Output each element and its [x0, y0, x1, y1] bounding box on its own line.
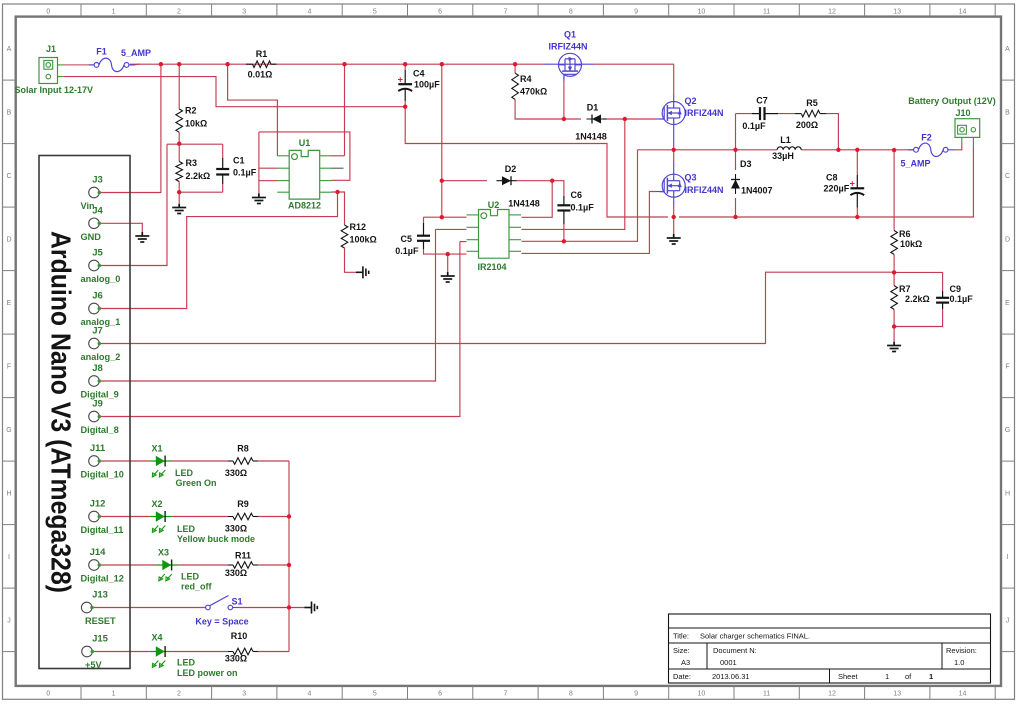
svg-text:Digital_8: Digital_8 — [81, 425, 119, 435]
connector J10 — [955, 119, 980, 138]
junction — [892, 324, 896, 328]
svg-text:6: 6 — [438, 691, 442, 698]
wire LED X4 to R10 — [172, 651, 228, 653]
led X3 — [156, 560, 178, 582]
svg-text:J5: J5 — [92, 248, 103, 259]
wire C1 top lead — [222, 144, 224, 158]
svg-text:R1: R1 — [256, 49, 268, 59]
svg-text:J6: J6 — [92, 291, 103, 302]
junction — [892, 148, 896, 152]
svg-text:5_AMP: 5_AMP — [900, 159, 930, 169]
svg-text:C: C — [6, 173, 11, 180]
diode D3 — [731, 174, 740, 194]
wire Q1 gate stub — [563, 77, 565, 82]
svg-text:J3: J3 — [92, 175, 103, 186]
wire F1 blue stub — [129, 64, 135, 66]
svg-text:U2: U2 — [488, 200, 500, 210]
wire S1 blue stub — [233, 607, 238, 609]
wire J7 analog_2 to divider — [99, 272, 894, 343]
wire top rail left of Q1 — [130, 63, 544, 65]
svg-text:470kΩ: 470kΩ — [520, 87, 547, 97]
svg-text:0.1µF: 0.1µF — [233, 168, 257, 178]
wire U2 VS to output rail — [522, 150, 638, 242]
connector J12 pin — [89, 511, 101, 522]
connector J11 pin — [89, 456, 101, 467]
wire R2 bottom — [178, 132, 180, 144]
wire U1 left vertical — [258, 132, 260, 194]
svg-text:C7: C7 — [756, 96, 768, 106]
svg-text:AD8212: AD8212 — [288, 201, 321, 211]
wire J15 to LED X4 — [93, 651, 150, 653]
wire J10 pin1 stub — [961, 138, 963, 144]
connector J8 pin — [89, 376, 101, 387]
wire U1 output to J6 analog_1 — [99, 192, 337, 309]
svg-text:Solar charger schematics FINAL: Solar charger schematics FINAL. — [700, 632, 810, 641]
junction — [177, 62, 181, 66]
connector J7 pin — [89, 338, 101, 349]
svg-text:Digital_11: Digital_11 — [81, 525, 124, 535]
wire R10 to chain — [258, 651, 289, 653]
junction — [287, 563, 291, 567]
junction — [892, 270, 896, 274]
svg-text:10: 10 — [698, 9, 706, 16]
wire Q2 drain stub — [673, 95, 675, 102]
junction — [855, 215, 859, 219]
wire R5 right leg — [826, 114, 838, 150]
svg-text:IRFIZ44N: IRFIZ44N — [549, 42, 588, 52]
lead C1 bottom — [222, 175, 224, 185]
svg-text:R7: R7 — [899, 284, 911, 294]
junction — [440, 179, 444, 183]
svg-text:R5: R5 — [806, 98, 818, 108]
wire C6 bottom lead — [563, 224, 565, 241]
svg-text:10: 10 — [698, 691, 706, 698]
wire LED chain vertical — [288, 461, 290, 652]
svg-text:J: J — [1006, 617, 1010, 624]
wire to ground below R3 — [178, 192, 180, 203]
capacitor C6 — [557, 205, 570, 210]
lead C7 right — [765, 113, 779, 115]
wire J8 Digital_9 to U2 IN — [99, 229, 435, 381]
svg-text:9: 9 — [634, 9, 638, 16]
connector J6 pin — [89, 303, 101, 314]
wire Q2 source to rail — [673, 146, 675, 162]
svg-text:Key = Space: Key = Space — [195, 617, 248, 627]
svg-text:J10: J10 — [955, 108, 970, 118]
svg-text:Title:: Title: — [673, 632, 689, 641]
svg-text:A3: A3 — [681, 658, 690, 667]
wire R1 left sense to U1 pin1 — [228, 64, 278, 156]
wire Q3 drain stub — [673, 162, 675, 174]
wire R1 right sense to U1 pin1R — [344, 64, 346, 156]
svg-text:J14: J14 — [90, 547, 107, 558]
wire U1 pin2L entry — [259, 167, 278, 169]
junction — [733, 215, 737, 219]
wire C7 to R5 — [778, 113, 795, 115]
wire C5 bottom to U2 pin4L — [424, 249, 467, 254]
led X2 — [150, 511, 172, 533]
wire output rail left of L1 — [638, 149, 778, 151]
svg-text:Revision:: Revision: — [946, 646, 977, 655]
svg-text:5_AMP: 5_AMP — [121, 48, 151, 58]
svg-text:D2: D2 — [505, 164, 517, 174]
ground R12 — [356, 266, 369, 278]
wire top rail to R2 — [178, 64, 180, 109]
resistor R11 — [233, 562, 253, 569]
svg-text:D3: D3 — [740, 159, 752, 169]
wire VCC to D2 anode — [442, 180, 487, 182]
svg-text:Digital_12: Digital_12 — [81, 574, 124, 584]
resistor R10 — [233, 648, 253, 655]
svg-text:Q1: Q1 — [564, 30, 576, 40]
svg-text:Arduino Nano V3 (ATmega328): Arduino Nano V3 (ATmega328) — [46, 231, 77, 593]
wire U2 pin1L row — [424, 216, 467, 218]
transistor Q3 — [660, 174, 686, 197]
wire R7 to ground — [893, 327, 895, 342]
lead C5 top — [423, 223, 425, 236]
svg-text:A: A — [7, 46, 12, 53]
svg-text:2: 2 — [177, 691, 181, 698]
svg-text:1: 1 — [112, 9, 116, 16]
transistor Q1 — [559, 53, 582, 79]
svg-text:R8: R8 — [237, 444, 249, 454]
svg-text:J4: J4 — [92, 205, 103, 216]
connector J13 pin — [81, 602, 93, 613]
svg-text:C1: C1 — [233, 156, 245, 166]
wire C5 top lead — [423, 217, 425, 223]
svg-text:11: 11 — [763, 691, 770, 698]
wire R12 to ground — [345, 248, 357, 272]
svg-text:R11: R11 — [235, 551, 251, 561]
svg-text:X2: X2 — [151, 499, 162, 509]
svg-text:5: 5 — [373, 9, 377, 16]
wire J3 Vin to top rail — [99, 64, 160, 192]
wire R3 top lead — [178, 144, 180, 161]
svg-text:R6: R6 — [899, 229, 911, 239]
wire U2 HO to D1 row — [522, 119, 625, 229]
wire S1 to ground — [238, 607, 306, 609]
svg-text:+5V: +5V — [85, 660, 102, 670]
wire R3 C1 bottom — [179, 191, 223, 193]
resistor R12 — [341, 225, 348, 248]
wire rail to C8 — [856, 150, 858, 175]
resistor R5 — [801, 110, 820, 117]
connector J9 pin — [89, 411, 101, 422]
ground below C5 — [441, 272, 455, 282]
svg-text:red_off: red_off — [181, 582, 213, 592]
wire U2 LO to Q3 gate — [522, 192, 657, 254]
wire resistor to chain — [258, 564, 289, 566]
wire D1 to Q2 gate — [603, 118, 656, 120]
wire D3 to bottom rail — [735, 198, 737, 217]
wire LED to resistor — [172, 516, 228, 518]
svg-text:1N4007: 1N4007 — [741, 186, 773, 196]
wire to C7 — [736, 113, 753, 115]
wire Q3 gate stub — [656, 191, 664, 193]
svg-text:0001: 0001 — [720, 658, 737, 667]
svg-text:0.1µF: 0.1µF — [395, 246, 419, 256]
svg-text:C5: C5 — [400, 234, 412, 244]
svg-text:R10: R10 — [231, 631, 248, 641]
junction — [287, 605, 291, 609]
lead C9 top — [942, 291, 944, 298]
junction — [513, 62, 517, 66]
lead C5 bottom — [423, 241, 425, 249]
connector J15 pin — [82, 646, 94, 657]
svg-text:of: of — [905, 672, 912, 681]
wire J9 Digital_8 to U2 — [99, 242, 460, 417]
capacitor C7 — [760, 107, 765, 120]
connector J1 — [39, 58, 65, 84]
resistor R2 — [176, 109, 183, 132]
svg-text:LED: LED — [177, 658, 196, 668]
junction — [855, 148, 859, 152]
wire C1 bottom lead — [222, 184, 224, 192]
wire bootstrap to U2 pin1R — [522, 181, 553, 218]
svg-text:H: H — [6, 490, 11, 497]
svg-text:5: 5 — [373, 691, 377, 698]
wire top rail to R4 — [514, 64, 516, 73]
title block — [669, 614, 991, 683]
wire R3 C1 top — [167, 143, 223, 145]
junction — [440, 215, 444, 219]
svg-text:E: E — [1005, 300, 1010, 307]
wire U2 pin2L entry — [436, 228, 467, 230]
svg-text:LED power on: LED power on — [177, 668, 238, 678]
svg-text:C6: C6 — [571, 190, 583, 200]
svg-text:IRFIZ44N: IRFIZ44N — [685, 185, 724, 195]
capacitor C4 — [398, 70, 412, 101]
wire F2 left stub — [909, 149, 914, 151]
wire C7 left leg — [735, 114, 737, 150]
svg-text:J11: J11 — [90, 443, 106, 454]
svg-text:G: G — [6, 427, 11, 434]
switch S1 — [206, 596, 233, 610]
wire Q1 drain-source through — [544, 63, 594, 65]
svg-text:U1: U1 — [299, 138, 311, 148]
wire R6 bottom — [893, 254, 895, 272]
svg-text:1: 1 — [929, 672, 933, 681]
junction — [177, 190, 181, 194]
junction — [672, 148, 676, 152]
svg-text:R2: R2 — [185, 106, 197, 116]
svg-text:3: 3 — [242, 9, 246, 16]
resistor R3 — [176, 162, 183, 182]
svg-text:12: 12 — [828, 9, 836, 16]
svg-text:Document N:: Document N: — [713, 646, 757, 655]
ground below Q3 — [667, 234, 681, 244]
svg-text:8: 8 — [569, 9, 573, 16]
svg-text:S1: S1 — [232, 597, 243, 607]
svg-text:Yellow buck mode: Yellow buck mode — [177, 534, 255, 544]
resistor R7 — [891, 286, 898, 310]
inductor L1 — [777, 147, 801, 150]
lead C1 top — [222, 158, 224, 169]
svg-text:analog_2: analog_2 — [81, 352, 121, 362]
svg-text:L1: L1 — [780, 135, 791, 145]
junction — [672, 215, 676, 219]
svg-text:13: 13 — [893, 691, 901, 698]
wire J10 pin2 stub — [972, 138, 974, 149]
svg-text:330Ω: 330Ω — [225, 568, 247, 578]
svg-text:10kΩ: 10kΩ — [900, 239, 922, 249]
svg-text:Q3: Q3 — [685, 173, 697, 183]
led X4 — [150, 646, 172, 668]
lead R5 right — [820, 113, 826, 115]
svg-text:10kΩ: 10kΩ — [185, 119, 207, 129]
wire output rail to F2 — [801, 149, 916, 151]
svg-text:33µH: 33µH — [772, 151, 794, 161]
wire from digital pin to LED — [99, 516, 149, 518]
svg-text:C: C — [1005, 173, 1010, 180]
svg-text:H: H — [1005, 490, 1010, 497]
wire J13 RESET to S1 — [92, 607, 206, 609]
svg-text:LED: LED — [177, 524, 196, 534]
ic U2 IR2104 body — [479, 210, 510, 259]
svg-text:Solar Input 12-17V: Solar Input 12-17V — [15, 85, 94, 95]
svg-text:12: 12 — [828, 691, 836, 698]
wire J1 minus to C4 bottom — [65, 77, 406, 107]
wire R7 bottom lead — [893, 309, 895, 326]
svg-text:2013.06.31: 2013.06.31 — [712, 672, 750, 681]
capacitor C8 — [850, 175, 864, 207]
wire after F1 — [135, 63, 141, 66]
svg-text:J1: J1 — [46, 44, 56, 54]
wire U1 pin3L entry — [259, 180, 278, 182]
wire Q2 source stub — [673, 124, 675, 146]
svg-text:J9: J9 — [92, 399, 103, 410]
svg-text:0.1µF: 0.1µF — [742, 121, 766, 131]
wire D2 cathode to C6 — [516, 181, 564, 196]
junction — [446, 252, 450, 256]
wire resistor to chain — [258, 460, 289, 462]
junction — [159, 62, 163, 66]
wire top rail to C4 — [404, 64, 406, 70]
wire U1 pin1R to vertical — [332, 155, 345, 157]
svg-text:Q2: Q2 — [685, 96, 697, 106]
svg-text:2.2kΩ: 2.2kΩ — [905, 294, 930, 304]
svg-text:0.01Ω: 0.01Ω — [248, 69, 273, 79]
wire F2 to J10 — [954, 143, 962, 150]
svg-text:D: D — [1005, 236, 1010, 243]
resistor R4 — [512, 73, 519, 99]
svg-text:J15: J15 — [92, 634, 109, 645]
svg-text:330Ω: 330Ω — [225, 524, 247, 534]
led X1 — [150, 456, 172, 478]
junction — [733, 148, 737, 152]
svg-text:X1: X1 — [151, 444, 162, 454]
svg-text:IRFIZ44N: IRFIZ44N — [685, 108, 724, 118]
ground U1 left — [252, 194, 266, 204]
junction — [342, 62, 346, 66]
svg-text:LED: LED — [175, 468, 194, 478]
wire U2 ground stem — [447, 254, 449, 272]
svg-text:J8: J8 — [92, 363, 103, 374]
wire Q3 source to ground — [673, 206, 675, 234]
junction — [562, 117, 566, 121]
wire output to R6 — [893, 150, 895, 230]
wire rail to D3 — [735, 150, 737, 170]
svg-text:220µF: 220µF — [824, 184, 850, 194]
wire VCC to U2 pin1 — [441, 64, 443, 217]
wire R7 top lead — [893, 272, 895, 285]
svg-text:Size:: Size: — [673, 646, 690, 655]
svg-text:J12: J12 — [90, 499, 106, 510]
wire Q3 source stub — [673, 197, 675, 206]
wire LED to resistor — [178, 564, 228, 566]
junction — [177, 142, 181, 146]
svg-text:2.2kΩ: 2.2kΩ — [186, 171, 211, 181]
svg-text:Date:: Date: — [673, 672, 691, 681]
wire bottom ground rail to J10 — [679, 148, 973, 217]
svg-text:R4: R4 — [520, 74, 532, 84]
svg-text:C4: C4 — [413, 69, 425, 79]
wire LED to resistor — [172, 460, 228, 462]
junction — [562, 239, 566, 243]
wire C8 to bottom rail — [856, 207, 858, 217]
svg-text:J: J — [7, 617, 11, 624]
ground below R3 — [172, 204, 186, 214]
svg-text:I: I — [8, 554, 10, 561]
junction — [403, 105, 407, 109]
junction — [550, 179, 554, 183]
svg-text:0.1µF: 0.1µF — [950, 294, 974, 304]
wire R4 bottom to D1 — [515, 99, 581, 119]
svg-text:3: 3 — [242, 691, 246, 698]
wire Q2 gate stub — [656, 118, 664, 120]
svg-text:100µF: 100µF — [414, 80, 440, 90]
svg-text:X3: X3 — [158, 548, 169, 558]
connector J14 pin — [89, 560, 101, 571]
ground at S1 — [305, 602, 318, 614]
svg-text:1: 1 — [885, 672, 889, 681]
svg-text:0: 0 — [46, 9, 50, 16]
lead C6 top — [563, 196, 565, 205]
connector J5 pin — [89, 260, 101, 271]
wire Q1 gate — [563, 81, 565, 119]
svg-text:+: + — [398, 74, 403, 84]
transistor Q2 — [660, 102, 686, 125]
junction — [335, 190, 339, 194]
svg-text:13: 13 — [893, 9, 901, 16]
resistor R9 — [233, 513, 253, 520]
ground at J4 — [135, 232, 149, 242]
svg-text:4: 4 — [308, 691, 312, 698]
svg-text:C8: C8 — [826, 173, 838, 183]
svg-text:Digital_10: Digital_10 — [81, 470, 124, 480]
connector J4 pin — [89, 218, 101, 229]
wire ground return to Q3 source — [405, 107, 668, 217]
svg-text:R3: R3 — [186, 158, 198, 168]
svg-text:1N4148: 1N4148 — [508, 199, 540, 209]
svg-text:2: 2 — [177, 9, 181, 16]
resistor R1 — [253, 61, 272, 68]
resistor R8 — [233, 458, 253, 465]
svg-text:X4: X4 — [151, 633, 162, 643]
svg-text:4: 4 — [308, 9, 312, 16]
fuse F1 — [94, 58, 129, 72]
svg-text:F: F — [7, 363, 11, 370]
capacitor C5 — [417, 236, 430, 241]
svg-text:F: F — [1005, 363, 1009, 370]
wire from digital pin to LED — [99, 460, 149, 462]
svg-text:B: B — [1005, 109, 1010, 116]
wire F2 blue stub — [948, 149, 954, 151]
svg-text:D1: D1 — [587, 103, 599, 113]
svg-text:I: I — [1007, 554, 1009, 561]
wire C9 top leg — [894, 272, 943, 291]
fuse F2 — [914, 143, 948, 157]
